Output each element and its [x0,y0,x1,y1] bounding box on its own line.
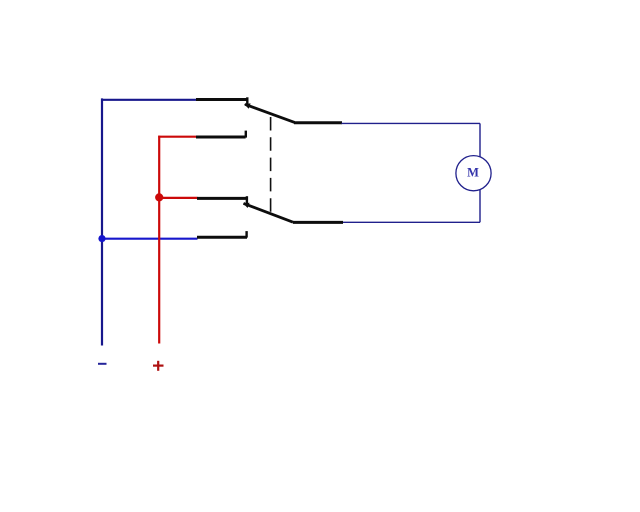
svg-text:M: M [467,165,479,179]
